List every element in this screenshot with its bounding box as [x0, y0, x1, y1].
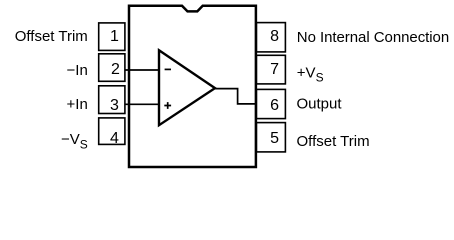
pin 1 box	[99, 23, 125, 51]
svg-text:2: 2	[111, 61, 120, 78]
wire pin3 to non-inverting input	[126, 103, 160, 105]
op-amp inverting input polarity mark (minus)	[165, 68, 171, 70]
svg-text:+In: +In	[67, 96, 88, 113]
pin 6 box	[256, 89, 285, 118]
svg-text:6: 6	[270, 97, 279, 114]
svg-text:5: 5	[270, 130, 279, 147]
pin 2 box	[99, 54, 125, 82]
svg-text:8: 8	[270, 28, 279, 45]
pin 4 box	[99, 118, 125, 144]
op-amp non-inverting input polarity mark (plus)	[164, 102, 171, 109]
svg-text:7: 7	[270, 61, 279, 78]
IC package body U1 (8-pin DIP outline with index notch)	[129, 6, 256, 167]
pin 8 box	[256, 23, 285, 52]
svg-text:No Internal Connection: No Internal Connection	[297, 29, 449, 46]
wire pin2 to inverting input	[126, 69, 160, 71]
op-amp A1 triangle	[159, 50, 215, 125]
svg-text:1: 1	[110, 28, 119, 45]
wire op-amp output to pin 6	[215, 89, 257, 104]
pin 7 box	[256, 55, 285, 84]
pin 5 box	[256, 123, 285, 152]
svg-text:4: 4	[110, 130, 119, 147]
svg-text:Output: Output	[297, 95, 343, 112]
pin 3 box	[99, 86, 125, 114]
svg-text:3: 3	[110, 97, 119, 114]
svg-text:−In: −In	[67, 62, 88, 79]
svg-text:Offset Trim: Offset Trim	[297, 133, 370, 150]
svg-text:Offset Trim: Offset Trim	[15, 28, 88, 45]
